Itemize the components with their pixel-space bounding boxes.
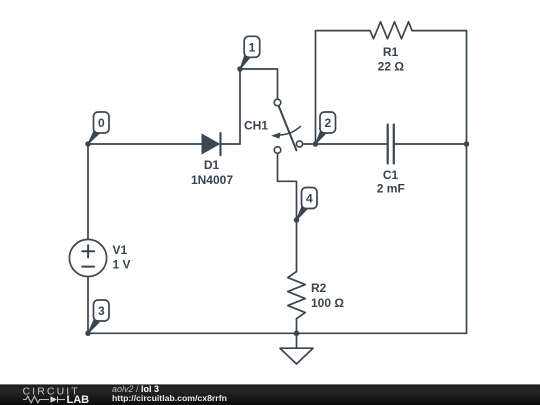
svg-text:2 mF: 2 mF [377, 181, 405, 195]
svg-text:http://circuitlab.com/cx8rrfn: http://circuitlab.com/cx8rrfn [112, 393, 227, 403]
svg-text:R1: R1 [383, 45, 399, 59]
svg-text:C1: C1 [383, 168, 399, 182]
svg-text:LAB: LAB [67, 394, 90, 405]
svg-text:0: 0 [98, 116, 105, 130]
svg-text:2: 2 [324, 116, 331, 130]
svg-text:V1: V1 [113, 243, 128, 257]
svg-text:1: 1 [249, 41, 256, 55]
svg-text:100 Ω: 100 Ω [311, 296, 344, 310]
svg-text:R2: R2 [311, 281, 327, 295]
svg-text:1N4007: 1N4007 [191, 173, 233, 187]
svg-text:D1: D1 [204, 158, 220, 172]
svg-text:4: 4 [306, 192, 313, 206]
svg-text:22 Ω: 22 Ω [378, 59, 405, 73]
svg-text:3: 3 [98, 304, 105, 318]
svg-text:CH1: CH1 [244, 118, 268, 132]
svg-text:1 V: 1 V [113, 257, 131, 271]
